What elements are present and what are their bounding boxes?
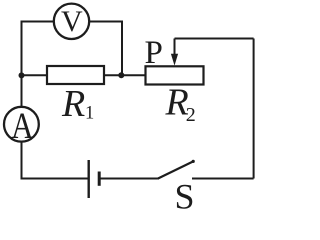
svg-text:S: S xyxy=(175,177,195,213)
battery short plate (-) xyxy=(98,172,101,186)
svg-text:2: 2 xyxy=(186,104,196,126)
svg-text:P: P xyxy=(145,35,163,71)
voltmeter U-V circle xyxy=(54,4,89,39)
wire right vertical rail xyxy=(253,39,255,179)
wire top-left to voltmeter xyxy=(22,22,54,107)
svg-text:R: R xyxy=(61,83,85,125)
ammeter A circle xyxy=(4,107,39,142)
wire wiper stem xyxy=(174,39,176,57)
node B junction dot xyxy=(118,72,124,78)
switch S lever xyxy=(158,161,194,179)
wire voltmeter right lead down to node B xyxy=(90,22,122,76)
wire node A to R1 xyxy=(22,74,48,76)
switch lever tip dot xyxy=(192,160,195,163)
wiper arrowhead P xyxy=(171,54,178,66)
node A junction dot xyxy=(19,72,25,78)
svg-text:V: V xyxy=(61,5,83,38)
wire top right from wiper to right rail xyxy=(175,38,254,40)
battery long plate (+) xyxy=(87,160,89,198)
svg-text:A: A xyxy=(11,107,34,147)
svg-text:1: 1 xyxy=(85,104,94,124)
resistor R1 box xyxy=(47,66,104,84)
wire bottom right to switch contact xyxy=(192,178,254,180)
wire battery to switch pivot xyxy=(99,178,158,180)
wire ammeter to bottom left corner to battery xyxy=(22,142,89,178)
rheostat R2 box xyxy=(146,66,204,84)
wire R1 to node B to R2 xyxy=(104,74,146,76)
